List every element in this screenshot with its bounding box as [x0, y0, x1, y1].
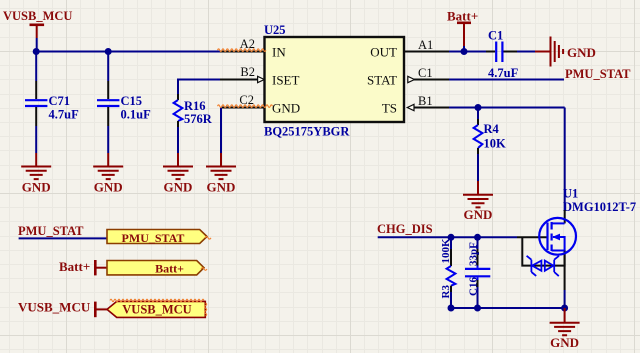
ground GND (source)	[550, 308, 580, 350]
wire R4 lower	[477, 154, 479, 181]
node junction source	[561, 305, 568, 312]
power port Batt+ (top)	[447, 9, 478, 47]
capacitor C15	[97, 81, 151, 126]
wire STAT net	[449, 79, 564, 81]
wire C71 lower	[35, 126, 37, 153]
pin STAT (C1)	[367, 66, 449, 88]
pin squiggle A2	[218, 49, 266, 52]
wire CHG_DIS net	[378, 236, 517, 238]
ground GND (C71)	[21, 153, 51, 195]
pin TS (B1)	[382, 94, 449, 116]
node junction R3 bottom	[448, 305, 455, 312]
pin ISET (B2)	[220, 65, 300, 88]
svg-text:Batt+: Batt+	[59, 259, 90, 274]
svg-text:A2: A2	[240, 37, 255, 51]
ground GND (right, rotated)	[535, 37, 596, 67]
node junction at R4	[475, 104, 482, 111]
svg-text:576R: 576R	[184, 112, 213, 126]
svg-text:VUSB_MCU: VUSB_MCU	[3, 9, 72, 23]
svg-text:GND: GND	[272, 101, 300, 116]
svg-text:U25: U25	[264, 23, 286, 37]
wire C15 upper	[107, 52, 109, 82]
svg-text:GND: GND	[94, 180, 123, 195]
wire TS drop to Q1 drain	[564, 108, 566, 211]
wire R3 upper	[450, 237, 452, 249]
resistor R4	[474, 119, 506, 154]
svg-text:TS: TS	[382, 101, 397, 116]
svg-text:A1: A1	[418, 38, 433, 52]
source pin	[564, 251, 566, 291]
svg-text:C15: C15	[121, 94, 143, 108]
wire R4 upper	[477, 108, 479, 120]
drain stub	[552, 222, 565, 224]
wire GND pin net (C2)	[222, 107, 265, 109]
svg-text:BQ25175YBGR: BQ25175YBGR	[264, 125, 350, 139]
svg-text:B1: B1	[418, 94, 433, 108]
wire Batt+ stem	[463, 46, 465, 52]
port squiggle VUSB right edge	[205, 303, 207, 316]
wire ISET net (B2)	[178, 79, 220, 81]
svg-text:C1: C1	[418, 66, 433, 80]
node junction at C15	[105, 48, 112, 55]
power port VUSB_MCU (top-left)	[3, 9, 72, 38]
pin GND (C2)	[239, 93, 300, 116]
pin OUT (A1)	[370, 38, 449, 60]
wire C16 lower	[477, 287, 479, 308]
wire C15 lower	[107, 126, 109, 153]
svg-text:B2: B2	[240, 65, 255, 79]
resistor R16	[174, 94, 213, 127]
svg-text:VUSB_MCU: VUSB_MCU	[18, 300, 91, 315]
svg-text:VUSB_MCU: VUSB_MCU	[122, 303, 191, 317]
svg-text:PMU_STAT: PMU_STAT	[565, 67, 631, 81]
gate pin	[517, 236, 548, 238]
power port VUSB_MCU (bottom)	[18, 300, 107, 318]
esd zener pair	[527, 256, 559, 276]
svg-text:GND: GND	[164, 180, 193, 195]
ground GND (R16)	[163, 153, 193, 195]
capacitor C71	[25, 81, 79, 126]
wire bottom source net	[451, 307, 565, 309]
svg-text:C71: C71	[49, 94, 71, 108]
svg-text:PMU_STAT: PMU_STAT	[122, 231, 185, 245]
pin IN (A2)	[220, 37, 286, 60]
svg-text:R16: R16	[184, 99, 206, 113]
wire TS net	[449, 107, 565, 109]
node junction at R3	[448, 234, 455, 241]
wire C2 vertical	[220, 108, 222, 154]
port tip mark PMU_STAT	[205, 237, 211, 240]
wire OUT net	[449, 51, 486, 53]
svg-text:STAT: STAT	[367, 73, 397, 88]
wire R16 upper	[177, 79, 179, 95]
IC U25 BQ25175YBGR charger	[264, 23, 404, 139]
svg-text:PMU_STAT: PMU_STAT	[18, 224, 84, 238]
svg-text:IN: IN	[272, 45, 286, 60]
svg-text:U1: U1	[563, 187, 578, 201]
port tip mark Batt+	[201, 268, 207, 271]
ground GND (R4)	[463, 181, 493, 222]
port Batt+	[107, 261, 204, 276]
svg-text:100K: 100K	[440, 238, 452, 264]
svg-text:GND: GND	[550, 335, 579, 350]
capacitor C16	[465, 242, 490, 296]
svg-text:C1: C1	[488, 29, 503, 43]
source stub	[552, 250, 565, 252]
pin squiggle C2	[218, 105, 273, 108]
port VUSB_MCU	[107, 301, 205, 317]
node junction at Batt+	[461, 48, 468, 55]
svg-text:Batt+: Batt+	[447, 9, 478, 24]
svg-text:GND: GND	[22, 180, 51, 195]
esd branch wiring	[522, 237, 564, 265]
svg-text:GND: GND	[207, 180, 236, 195]
node junction C16 bottom	[474, 305, 481, 312]
transistor U1 DMG1012T-7	[517, 187, 636, 309]
port PMU_STAT	[107, 230, 207, 246]
wire R3 lower	[450, 292, 452, 308]
wire VUSB_MCU stem to main net	[36, 38, 38, 52]
node junction at C71	[33, 48, 40, 55]
wire C1 to GND	[517, 51, 535, 53]
ground GND (C2 net)	[206, 153, 236, 195]
node junction at C16	[474, 234, 481, 241]
wire PMU_STAT to port	[19, 237, 107, 239]
svg-text:DMG1012T-7: DMG1012T-7	[563, 200, 636, 214]
svg-text:Batt+: Batt+	[155, 262, 184, 276]
svg-text:ISET: ISET	[272, 73, 300, 88]
svg-text:4.7uF: 4.7uF	[49, 108, 80, 122]
wire main IN net	[36, 51, 222, 53]
svg-text:GND: GND	[464, 207, 493, 222]
svg-text:GND: GND	[567, 45, 596, 60]
svg-text:0.1uF: 0.1uF	[121, 108, 152, 122]
wire R16 lower	[177, 127, 179, 153]
svg-text:CHG_DIS: CHG_DIS	[377, 222, 433, 236]
wire C71 upper	[35, 52, 37, 82]
gate bar	[546, 223, 548, 251]
mosfet circle	[539, 218, 576, 255]
port squiggle VUSB top edge	[110, 299, 204, 301]
svg-text:OUT: OUT	[370, 45, 397, 60]
capacitor C1	[486, 29, 519, 81]
body stub with arrow	[553, 237, 565, 251]
channel dashes	[550, 222, 552, 251]
wire C16 upper	[477, 237, 479, 249]
svg-text:10K: 10K	[484, 137, 507, 151]
power port Batt+ (bottom)	[59, 259, 107, 275]
svg-text:33pF: 33pF	[468, 242, 480, 266]
drain pin	[564, 210, 566, 223]
svg-text:4.7uF: 4.7uF	[488, 66, 519, 80]
resistor R3	[440, 238, 455, 299]
ground GND (C15)	[93, 153, 123, 195]
svg-text:R4: R4	[484, 122, 500, 136]
